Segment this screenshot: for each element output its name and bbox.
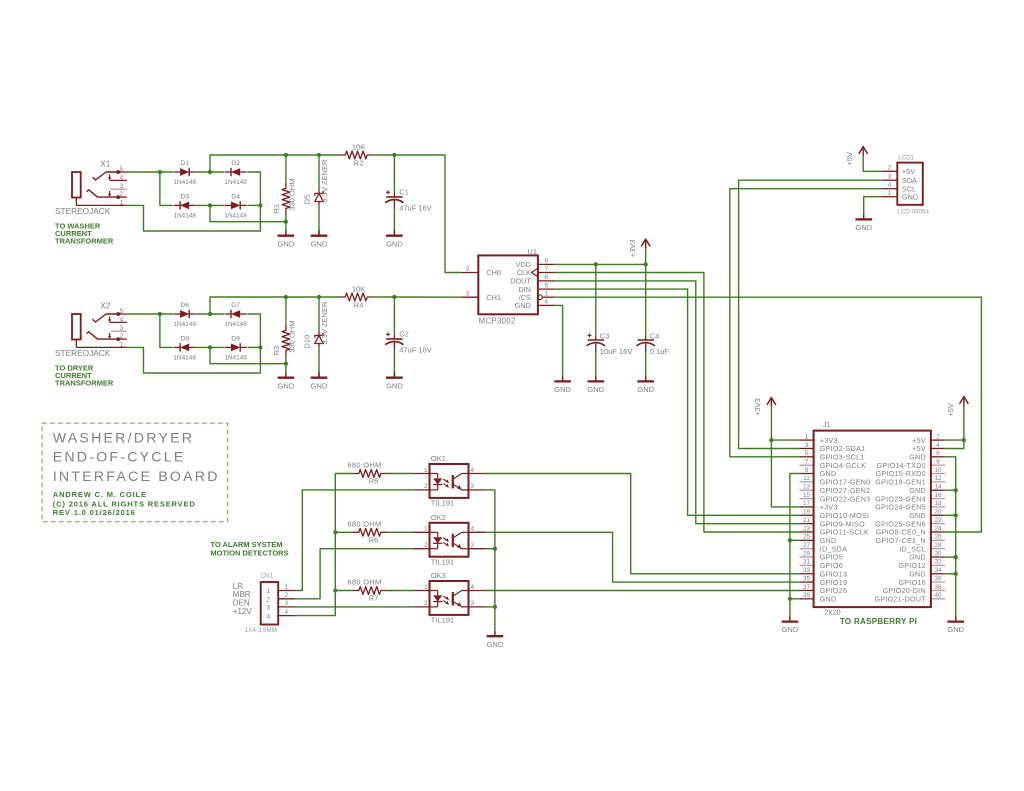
svg-text:J1: J1	[823, 420, 831, 429]
wire +12V rail	[295, 474, 353, 616]
ground	[855, 214, 872, 232]
optocoupler OK2 TIL191	[413, 513, 485, 566]
net label TO WASHER CURRENT TRANSFORMER	[55, 222, 114, 246]
svg-text:(C) 2016 ALL RIGHTS RESERVED: (C) 2016 ALL RIGHTS RESERVED	[53, 499, 196, 508]
svg-text:GND: GND	[820, 537, 837, 545]
wire	[335, 590, 353, 592]
svg-text:1N4148: 1N4148	[224, 321, 247, 328]
junction	[493, 605, 497, 609]
svg-text:1N4148: 1N4148	[224, 179, 247, 186]
wire	[196, 204, 224, 206]
wire	[386, 531, 413, 533]
svg-text:GPIO12: GPIO12	[898, 562, 925, 570]
junction	[258, 345, 262, 349]
power +5V	[845, 146, 868, 165]
svg-text:D5: D5	[303, 195, 312, 205]
svg-text:D6: D6	[180, 302, 189, 309]
optocoupler OK3 TIL191	[413, 571, 485, 624]
svg-text:34: 34	[934, 567, 942, 574]
diode D7	[224, 302, 247, 328]
svg-text:+5V: +5V	[845, 152, 854, 166]
junction	[954, 513, 958, 517]
svg-text:0.1uF: 0.1uF	[650, 347, 670, 356]
junction	[208, 170, 212, 174]
wire	[335, 531, 353, 533]
ground	[386, 372, 403, 391]
svg-text:35: 35	[803, 575, 811, 582]
wire	[373, 154, 394, 156]
ground	[782, 616, 799, 634]
svg-text:GPIO25-GEN6: GPIO25-GEN6	[875, 520, 926, 528]
svg-text:17: 17	[803, 500, 811, 507]
svg-text:3: 3	[471, 542, 475, 549]
svg-text:36: 36	[934, 575, 942, 582]
svg-text:1N4148: 1N4148	[174, 213, 197, 220]
wire	[771, 439, 799, 441]
wire	[393, 297, 395, 334]
diode D6	[174, 302, 197, 328]
resistor R5 680 OHM	[347, 461, 387, 486]
svg-text:GPIO26: GPIO26	[820, 587, 847, 595]
junction	[333, 588, 337, 592]
junction	[158, 312, 162, 316]
resistor R3 330 OHM	[272, 321, 297, 357]
svg-text:11: 11	[803, 475, 810, 482]
capacitor C1 47uF 16V	[385, 188, 432, 213]
capacitor C4 0.1uF	[637, 332, 670, 356]
net label TO DRYER CURRENT TRANSFORMER	[55, 364, 114, 388]
svg-text:20: 20	[934, 509, 942, 516]
svg-text:13: 13	[803, 484, 811, 491]
svg-text:GND: GND	[278, 239, 295, 248]
ground	[278, 364, 295, 391]
svg-text:+5V: +5V	[902, 167, 915, 176]
svg-text:TIL191: TIL191	[431, 616, 454, 625]
svg-text:2: 2	[936, 433, 940, 440]
junction	[954, 488, 958, 492]
svg-text:10uF 16V: 10uF 16V	[600, 347, 633, 356]
junction	[208, 345, 212, 349]
svg-text:30: 30	[934, 550, 942, 557]
wire	[386, 473, 413, 475]
svg-text:GPIO20-DIN: GPIO20-DIN	[883, 587, 926, 595]
wire	[790, 598, 800, 600]
svg-text:3: 3	[888, 174, 892, 181]
svg-text:2: 2	[424, 483, 428, 490]
wire	[945, 556, 956, 558]
svg-text:R1: R1	[272, 204, 281, 214]
svg-text:GPIO27-GEN2: GPIO27-GEN2	[820, 487, 871, 495]
svg-text:GPIO7-CE1_N: GPIO7-CE1_N	[876, 537, 926, 545]
junction	[317, 153, 321, 157]
wire	[386, 590, 413, 592]
wire	[393, 155, 395, 192]
svg-text:GND: GND	[909, 454, 926, 462]
wire	[285, 297, 287, 324]
wire CH0 net	[394, 155, 461, 273]
wire	[126, 347, 261, 373]
svg-text:GPIO2-SDA1: GPIO2-SDA1	[820, 445, 866, 453]
power +3V3	[628, 239, 650, 257]
svg-text:22: 22	[934, 517, 942, 524]
wire	[645, 352, 647, 376]
svg-text:3: 3	[805, 442, 809, 449]
wire OK2 to GPIO19	[485, 532, 799, 582]
svg-text:GPIO21-DOUT: GPIO21-DOUT	[875, 596, 927, 604]
svg-text:1N4148: 1N4148	[174, 321, 197, 328]
svg-text:GPIO11-SCLK: GPIO11-SCLK	[820, 529, 869, 537]
svg-text:14: 14	[934, 484, 942, 491]
wire	[595, 264, 597, 335]
svg-text:GPIO5: GPIO5	[820, 554, 843, 562]
svg-text:TRANSFORMER: TRANSFORMER	[55, 237, 114, 246]
wire CH1 net	[394, 296, 461, 298]
svg-text:GND: GND	[909, 554, 926, 562]
junction	[962, 438, 966, 442]
wire DEN	[295, 606, 414, 608]
power +5V	[946, 396, 969, 416]
zener diode D10 3.3V	[303, 301, 330, 348]
svg-text:R6: R6	[369, 535, 379, 544]
svg-text:GPIO17-GEN0: GPIO17-GEN0	[820, 479, 871, 487]
svg-text:ID_SDA: ID_SDA	[820, 545, 847, 553]
svg-text:GND: GND	[386, 239, 403, 248]
diode D1	[174, 160, 197, 186]
junction	[158, 170, 162, 174]
junction	[493, 547, 497, 551]
junction	[769, 438, 773, 442]
junction	[284, 220, 288, 224]
svg-text:GND: GND	[386, 381, 403, 390]
svg-text:3: 3	[471, 600, 475, 607]
svg-text:X1: X1	[100, 159, 110, 168]
svg-text:47uF 16V: 47uF 16V	[399, 346, 432, 355]
svg-text:CN1: CN1	[261, 573, 274, 580]
wire CLK to GPIO11-SCLK	[555, 273, 800, 533]
svg-text:LCD1: LCD1	[898, 155, 914, 162]
svg-text:C1: C1	[399, 188, 409, 197]
svg-text:R7: R7	[369, 594, 379, 603]
svg-text:GND: GND	[902, 192, 918, 201]
wire	[318, 348, 320, 378]
ground	[311, 230, 328, 249]
wire	[945, 573, 956, 575]
junction	[788, 538, 792, 542]
svg-text:2: 2	[266, 597, 270, 604]
svg-text:18: 18	[934, 500, 942, 507]
svg-text:D8: D8	[180, 335, 189, 342]
svg-text:5: 5	[120, 166, 124, 173]
svg-text:19: 19	[803, 509, 811, 516]
wire	[160, 314, 173, 347]
wire	[790, 539, 800, 541]
svg-text:D1: D1	[180, 160, 189, 167]
wire	[196, 346, 224, 348]
svg-text:LCD-09054: LCD-09054	[897, 209, 929, 216]
wire	[864, 197, 882, 215]
svg-text:2: 2	[120, 333, 124, 340]
svg-text:1: 1	[424, 467, 428, 474]
svg-text:GPIO15-RXD0: GPIO15-RXD0	[876, 470, 926, 478]
svg-text:16: 16	[934, 492, 942, 499]
wire	[196, 313, 224, 315]
wire	[485, 606, 495, 608]
svg-text:680 OHM: 680 OHM	[347, 578, 381, 587]
diode D4	[224, 193, 247, 219]
svg-text:GND: GND	[637, 385, 654, 394]
svg-text:D2: D2	[231, 160, 240, 167]
svg-text:1: 1	[285, 584, 289, 591]
svg-text:1: 1	[120, 199, 124, 206]
svg-text:D4: D4	[231, 193, 240, 200]
wire GND net left	[790, 474, 800, 617]
svg-text:R3: R3	[272, 346, 281, 356]
ground	[637, 376, 654, 394]
wire VDD to +3V3	[555, 263, 646, 265]
svg-text:D10: D10	[303, 335, 312, 349]
svg-text:6: 6	[936, 450, 940, 457]
wire	[127, 313, 173, 315]
wire	[127, 171, 173, 173]
svg-text:X2: X2	[100, 301, 110, 310]
svg-text:29: 29	[803, 550, 811, 557]
svg-text:4: 4	[471, 526, 475, 533]
svg-text:GPIO13: GPIO13	[820, 570, 847, 578]
wire	[393, 351, 395, 378]
svg-text:ID_SCL: ID_SCL	[899, 545, 926, 553]
svg-text:9: 9	[805, 467, 809, 474]
capacitor C3 10uF 16V	[587, 332, 633, 356]
wire	[645, 264, 647, 335]
svg-text:GND: GND	[554, 385, 571, 394]
wire	[771, 407, 799, 507]
svg-text:1: 1	[545, 291, 549, 298]
svg-text:+5V: +5V	[912, 445, 926, 453]
wire OK1 to GPIO13	[485, 474, 799, 574]
connector J1 2x20 raspberry-pi header	[799, 420, 945, 616]
wire	[210, 155, 339, 172]
svg-text:GND: GND	[947, 625, 964, 634]
svg-text:R4: R4	[354, 300, 364, 309]
svg-text:37: 37	[803, 584, 811, 591]
svg-text:40: 40	[934, 592, 942, 599]
svg-text:1: 1	[120, 341, 124, 348]
connector X2 stereo jack	[55, 301, 127, 358]
svg-text:2: 2	[120, 191, 124, 198]
svg-text:+3V3: +3V3	[628, 240, 637, 258]
svg-text:GPIO14-TXD0: GPIO14-TXD0	[876, 462, 925, 470]
power +3V3	[753, 397, 776, 416]
svg-text:C3: C3	[600, 332, 610, 341]
junction	[392, 295, 396, 299]
wire	[945, 489, 956, 491]
svg-text:21: 21	[803, 517, 811, 524]
resistor R1 330 OHM	[272, 179, 297, 215]
wire	[210, 205, 286, 221]
junction	[208, 203, 212, 207]
junction	[258, 203, 262, 207]
wire	[196, 171, 224, 173]
svg-text:32: 32	[934, 559, 942, 566]
svg-text:2: 2	[285, 592, 289, 599]
svg-text:2: 2	[424, 542, 428, 549]
svg-text:TO RASPBERRY PI: TO RASPBERRY PI	[840, 617, 917, 626]
wire /CS to GPIO8-CE0_N	[555, 297, 982, 532]
ground	[487, 631, 504, 649]
svg-text:4: 4	[120, 316, 124, 323]
svg-text:1: 1	[805, 433, 809, 440]
svg-text:3.3V ZENER: 3.3V ZENER	[320, 159, 329, 203]
resistor R4 10K	[339, 284, 373, 309]
wire	[285, 155, 287, 182]
junction	[208, 312, 212, 316]
svg-text:25: 25	[803, 534, 811, 541]
svg-text:INTERFACE BOARD: INTERFACE BOARD	[53, 469, 220, 485]
svg-text:12: 12	[934, 475, 942, 482]
resistor R2 10K	[339, 142, 373, 167]
svg-text:GND: GND	[311, 239, 328, 248]
svg-text:24: 24	[934, 525, 942, 532]
wire	[945, 406, 964, 449]
svg-text:GND: GND	[909, 570, 926, 578]
wire	[247, 346, 260, 348]
svg-text:26: 26	[934, 534, 942, 541]
svg-text:47uF 16V: 47uF 16V	[399, 204, 432, 213]
svg-text:GPIO3-SCL1: GPIO3-SCL1	[820, 454, 865, 462]
wire MBR	[295, 549, 414, 599]
wire	[126, 205, 261, 231]
svg-text:MOTION DETECTORS: MOTION DETECTORS	[210, 548, 288, 557]
svg-text:1: 1	[888, 190, 892, 197]
svg-text:OK3: OK3	[431, 571, 446, 580]
svg-text:1N4148: 1N4148	[224, 355, 247, 362]
svg-text:4: 4	[120, 174, 124, 181]
svg-text:2: 2	[424, 600, 428, 607]
zener diode D5 3.3V	[303, 159, 330, 206]
svg-text:GPIO10-MOSI: GPIO10-MOSI	[820, 512, 869, 520]
svg-text:4: 4	[471, 467, 475, 474]
resistor R6 680 OHM	[347, 520, 387, 545]
wire GND net right	[945, 457, 956, 617]
wire	[485, 548, 495, 550]
svg-text:GND: GND	[515, 301, 531, 310]
svg-text:4: 4	[471, 584, 475, 591]
svg-text:+3V3: +3V3	[820, 504, 838, 512]
svg-text:+3V3: +3V3	[753, 398, 762, 416]
wire	[595, 352, 597, 376]
svg-text:GND: GND	[820, 470, 837, 478]
svg-text:5: 5	[120, 308, 124, 315]
svg-text:GPIO16: GPIO16	[898, 579, 925, 587]
wire	[645, 248, 647, 264]
wire DIN to GPIO10-MOSI	[555, 289, 800, 515]
junction	[954, 555, 958, 559]
svg-text:10K: 10K	[352, 284, 365, 293]
junction	[317, 295, 321, 299]
svg-text:5: 5	[545, 282, 549, 289]
net label TO ALARM SYSTEM MOTION DETECTORS	[210, 540, 288, 557]
svg-text:3: 3	[285, 600, 289, 607]
junction	[392, 153, 396, 157]
wire	[318, 297, 320, 332]
svg-text:4: 4	[266, 613, 270, 620]
svg-text:GND: GND	[855, 223, 872, 232]
diode D3	[174, 193, 197, 219]
wire	[863, 156, 882, 172]
ground	[386, 230, 403, 249]
svg-text:3: 3	[466, 291, 470, 298]
wire	[393, 209, 395, 236]
svg-text:23: 23	[803, 525, 811, 532]
svg-text:GPIO6: GPIO6	[820, 562, 843, 570]
svg-text:680 OHM: 680 OHM	[347, 520, 381, 529]
svg-text:33: 33	[803, 567, 811, 574]
svg-text:+5V: +5V	[912, 437, 926, 445]
junction	[333, 530, 337, 534]
svg-text:680 OHM: 680 OHM	[347, 461, 381, 470]
wire	[210, 297, 339, 314]
svg-text:TIL191: TIL191	[431, 557, 454, 566]
junction	[594, 262, 598, 266]
svg-text:1: 1	[424, 526, 428, 533]
ground	[587, 376, 604, 394]
connector X1 stereo jack	[55, 159, 127, 216]
connector CN1 1X4-3.5MM	[233, 573, 295, 634]
wire	[247, 204, 260, 206]
title block	[42, 423, 228, 521]
svg-text:U1: U1	[528, 247, 538, 256]
svg-text:GPIO24-GEN5: GPIO24-GEN5	[875, 504, 926, 512]
svg-text:GND: GND	[587, 385, 604, 394]
svg-text:4: 4	[936, 442, 940, 449]
svg-text:D7: D7	[231, 302, 240, 309]
svg-text:GPIO4-GCLK: GPIO4-GCLK	[820, 462, 866, 470]
wire	[247, 172, 260, 205]
svg-text:D9: D9	[231, 335, 240, 342]
optocoupler OK1 TIL191	[413, 454, 485, 507]
svg-text:GND: GND	[311, 381, 328, 390]
wire emitters GND	[485, 490, 495, 631]
svg-text:OK2: OK2	[431, 513, 446, 522]
wire	[945, 514, 956, 516]
svg-text:2: 2	[466, 266, 470, 273]
svg-text:+3V3: +3V3	[820, 437, 838, 445]
ground	[311, 372, 328, 391]
capacitor C2 47uF 16V	[385, 330, 432, 355]
svg-text:TRANSFORMER: TRANSFORMER	[55, 379, 114, 388]
svg-text:330 OHM: 330 OHM	[288, 321, 297, 353]
ground	[278, 222, 295, 249]
svg-text:ANDREW C. M. COILE: ANDREW C. M. COILE	[53, 490, 147, 499]
svg-text:2: 2	[888, 165, 892, 172]
svg-text:15: 15	[803, 492, 811, 499]
svg-text:GND: GND	[782, 625, 799, 634]
svg-text:WASHER/DRYER: WASHER/DRYER	[53, 430, 195, 446]
svg-text:MCP3002: MCP3002	[479, 316, 516, 325]
wire	[247, 314, 260, 347]
svg-text:1N4148: 1N4148	[174, 355, 197, 362]
svg-text:3: 3	[471, 483, 475, 490]
svg-text:GPIO18-GEN1: GPIO18-GEN1	[875, 479, 926, 487]
svg-text:28: 28	[934, 542, 942, 549]
junction	[284, 362, 288, 366]
svg-text:39: 39	[803, 592, 811, 599]
ground	[554, 376, 571, 394]
svg-text:GPIO19: GPIO19	[820, 579, 847, 587]
module LCD1 LCD-09054	[882, 155, 929, 216]
svg-text:GND: GND	[820, 596, 837, 604]
svg-text:1N4148: 1N4148	[224, 213, 247, 220]
